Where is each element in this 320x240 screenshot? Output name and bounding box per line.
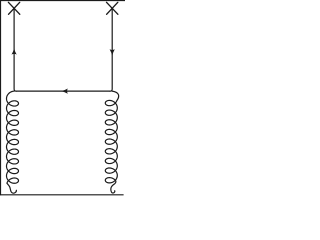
wire: left fermion line (vertical, from X1 down to left vertex) bbox=[14, 8, 16, 91]
frame top border bbox=[0, 0, 125, 2]
wire: horizontal fermion propagator bbox=[16, 90, 110, 92]
cross insertion X2 (top right) bbox=[107, 2, 118, 14]
arrow up on left fermion line bbox=[12, 48, 17, 55]
frame bottom border bbox=[0, 194, 124, 196]
gluon coil right bbox=[105, 91, 118, 193]
gluon coil left bbox=[7, 91, 19, 193]
cross insertion X1 (top left) bbox=[8, 2, 19, 14]
frame left border bbox=[0, 0, 2, 195]
arrow left on horizontal fermion line bbox=[61, 89, 68, 94]
arrow down on right fermion line bbox=[110, 49, 115, 56]
wire: right fermion line (vertical, from X2 down to right vertex) bbox=[110, 8, 112, 91]
